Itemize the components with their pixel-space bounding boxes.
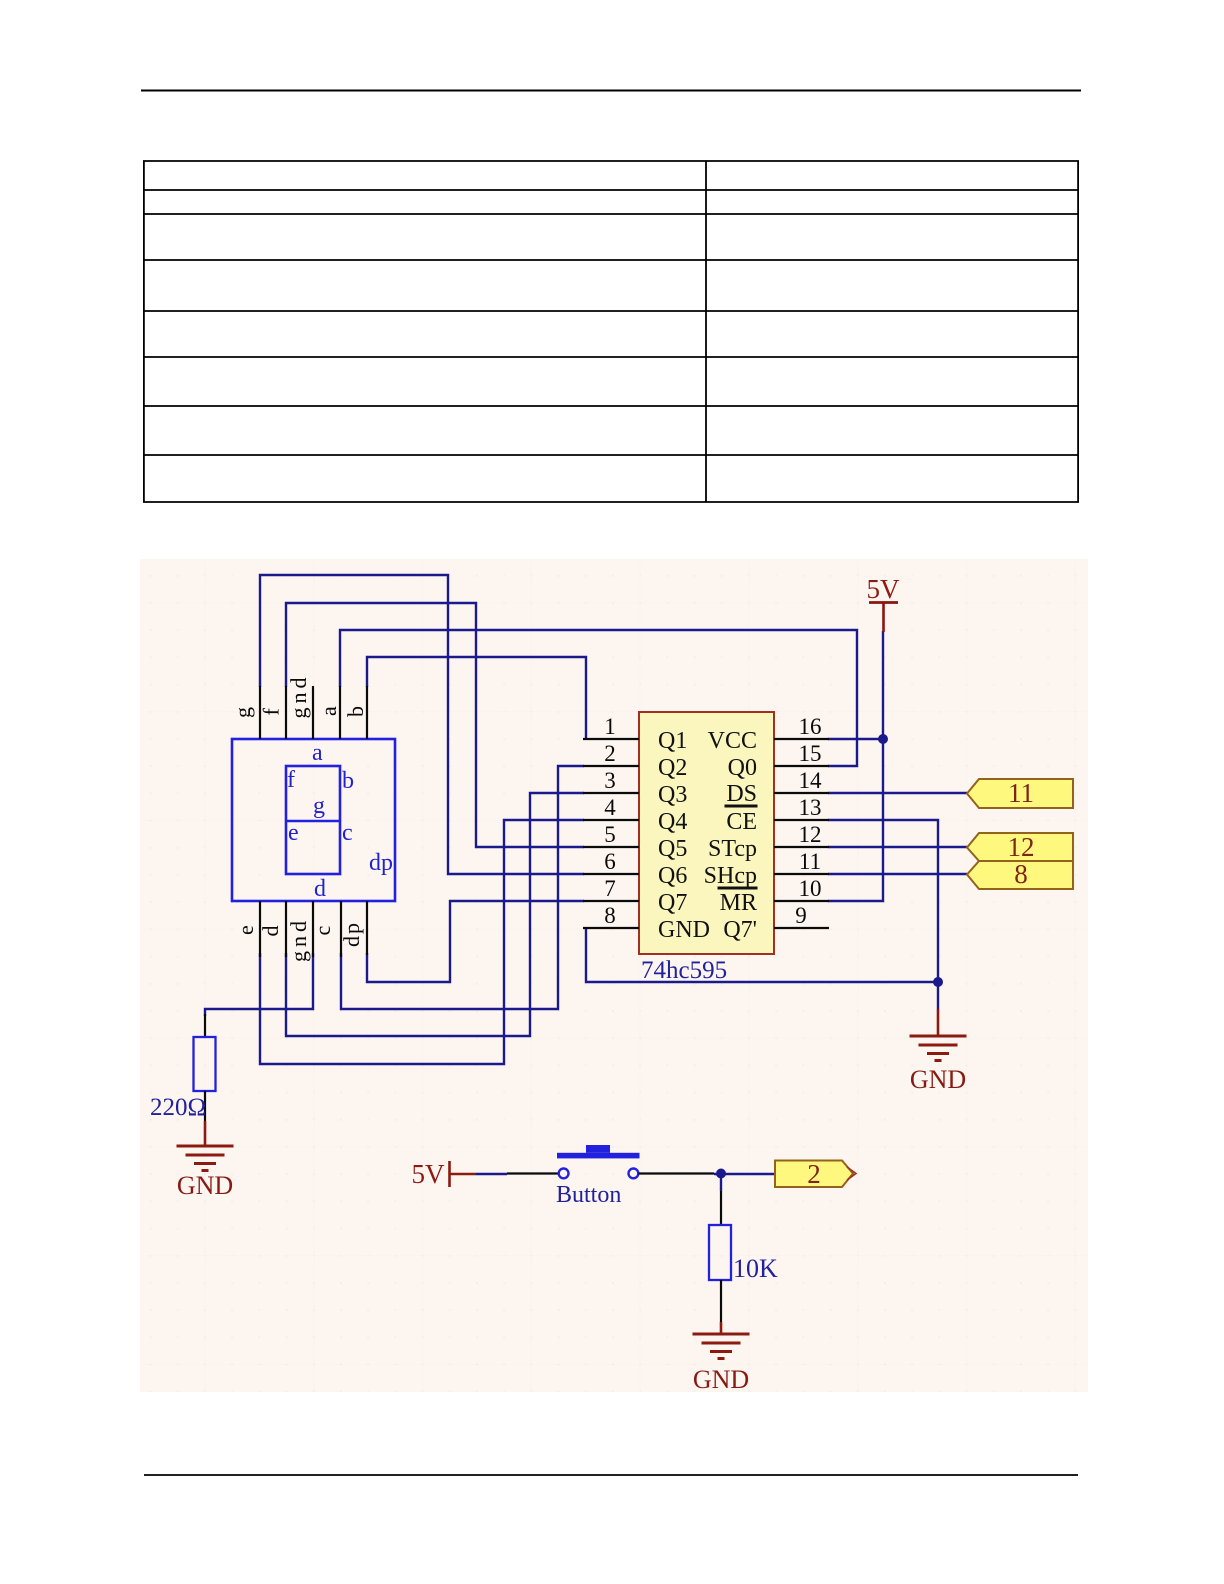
svg-text:Button: Button (556, 1182, 621, 1208)
svg-text:a: a (316, 706, 341, 716)
svg-text:Q0: Q0 (728, 755, 757, 781)
svg-text:dp: dp (369, 850, 393, 876)
table (143, 161, 1079, 502)
port 11 flag (967, 778, 1073, 808)
power port 5V (button) (412, 1159, 477, 1189)
resistor R1 220ohm body (194, 1014, 216, 1121)
wire net a: display top pin a to U1 pin 15 (Q0) (340, 630, 857, 766)
power port 5V (top) (867, 574, 901, 632)
schematic background (140, 559, 1088, 1392)
svg-text:STcp: STcp (708, 836, 757, 862)
display top pin stubs (260, 686, 367, 739)
wire net DS: U1 pin 14 to port 11 (828, 792, 967, 794)
svg-text:c: c (342, 820, 353, 846)
svg-text:VCC: VCC (708, 728, 757, 754)
wire net dp: display bottom pin dp to U1 pin 7 (Q7) (367, 901, 584, 982)
wire button to junction (639, 1172, 776, 1175)
svg-text:Q3: Q3 (658, 782, 687, 808)
button label (556, 1182, 621, 1208)
svg-text:9: 9 (795, 903, 807, 928)
svg-text:Q7: Q7 (658, 890, 687, 916)
resistor R2 value 10K (733, 1254, 778, 1283)
svg-text:GND: GND (658, 917, 710, 943)
footer rule (144, 1474, 1078, 1476)
svg-text:dp: dp (339, 921, 364, 947)
svg-text:GND: GND (910, 1065, 966, 1094)
svg-text:g: g (230, 707, 255, 718)
svg-text:4: 4 (604, 795, 616, 820)
wire net 5V: VCC rail vertical (828, 631, 883, 901)
svg-text:14: 14 (799, 768, 823, 793)
svg-text:f: f (287, 767, 295, 793)
svg-text:3: 3 (604, 768, 616, 793)
wire net e: display bottom pin e to U1 pin 4 (Q4) (260, 820, 584, 1064)
junction ground node (933, 977, 943, 987)
svg-text:5V: 5V (412, 1159, 446, 1189)
button S1 (557, 1145, 640, 1178)
wire net c: display bottom pin c to U1 pin 2 (Q2) (341, 766, 584, 1009)
svg-text:d: d (258, 926, 283, 937)
U1 right pin numbers 16-9 (795, 714, 822, 928)
svg-text:6: 6 (604, 849, 616, 874)
port 8 flag (967, 859, 1073, 889)
svg-text:11: 11 (799, 849, 821, 874)
svg-text:8: 8 (604, 903, 616, 928)
display bottom pin labels e d gnd c dp (rotated) (233, 917, 364, 962)
svg-text:f: f (259, 708, 284, 716)
schematic grid (140, 559, 1088, 1392)
svg-text:CE: CE (726, 809, 757, 835)
svg-text:11: 11 (1008, 778, 1034, 808)
svg-text:gnd: gnd (286, 917, 311, 962)
svg-text:7: 7 (604, 876, 616, 901)
svg-text:Q5: Q5 (658, 836, 687, 862)
ground symbol GND (middle, under U1) (910, 982, 967, 1094)
svg-text:12: 12 (1008, 832, 1035, 862)
resistor R2 10K body (709, 1225, 731, 1280)
wire net f: display top pin f to U1 pin 5 (Q5) (286, 603, 584, 847)
wire junction to resistor R2 (720, 1174, 722, 1225)
port 2 flag (775, 1159, 856, 1189)
svg-text:MR: MR (720, 890, 757, 916)
op 74hc595 U1 body (639, 712, 774, 954)
svg-text:5V: 5V (867, 574, 901, 604)
svg-text:b: b (342, 768, 354, 794)
svg-text:d: d (314, 876, 326, 902)
svg-text:10: 10 (799, 876, 822, 901)
svg-text:220Ω: 220Ω (150, 1094, 206, 1121)
svg-text:Q4: Q4 (658, 809, 687, 835)
svg-text:gnd: gnd (286, 674, 311, 719)
U1 DS underline / CE overline (725, 805, 758, 808)
svg-text:g: g (313, 793, 325, 819)
U1 designator 74hc595 (641, 957, 727, 984)
wire net g: display top pin g to U1 pin 6 (Q6) (260, 575, 584, 874)
svg-text:5: 5 (604, 822, 616, 847)
7-segment display segment letters (287, 740, 393, 902)
wire net d: display bottom pin d to U1 pin 3 (Q3) (286, 793, 584, 1036)
resistor R1 value 220ohm (150, 1094, 206, 1121)
wire net IC-GND: U1 pin 8 to ground junction (586, 928, 938, 982)
wire net CE: U1 pin 13 to ground junction (828, 820, 938, 982)
svg-text:Q2: Q2 (658, 755, 687, 781)
U1 left pin numbers 1-8 (604, 714, 616, 928)
svg-text:Q1: Q1 (658, 728, 687, 754)
ground symbol GND (left, under R1) (177, 1121, 234, 1200)
wire resistor R2 to ground (720, 1280, 722, 1334)
svg-text:13: 13 (799, 795, 822, 820)
display bottom pin stubs (260, 901, 367, 957)
junction VCC node (878, 734, 888, 744)
U1 left pin lines 1-8 (583, 739, 639, 928)
wire 5V to button (476, 1172, 559, 1175)
svg-text:c: c (310, 926, 335, 936)
svg-text:SHcp: SHcp (704, 863, 757, 889)
wire net b: display top pin b to U1 pin 1 (Q1) (367, 657, 586, 740)
svg-text:e: e (233, 925, 258, 935)
svg-text:16: 16 (799, 714, 822, 739)
7-segment display DS1 outer box (232, 739, 395, 901)
svg-text:8: 8 (1014, 859, 1028, 889)
svg-text:a: a (312, 740, 323, 766)
svg-text:12: 12 (799, 822, 822, 847)
7-segment display segment frame (286, 766, 340, 874)
svg-text:DS: DS (726, 781, 757, 807)
svg-text:Q6: Q6 (658, 863, 687, 889)
U1 SHcp underline / MR overline (718, 887, 758, 890)
svg-text:2: 2 (604, 741, 616, 766)
svg-text:GND: GND (177, 1171, 233, 1200)
U1 right pin lines 16-9 (774, 739, 829, 928)
svg-text:Q7': Q7' (723, 917, 757, 943)
U1 right pin labels (704, 728, 757, 943)
wire VCC pin16 to 5V (828, 738, 883, 740)
svg-text:2: 2 (807, 1159, 821, 1189)
svg-text:b: b (343, 706, 368, 717)
U1 left pin labels Q1-Q7,GND (658, 728, 710, 943)
port 12 flag (967, 832, 1073, 862)
wire net gnd: display bottom pin gnd to resistor R1 (205, 953, 313, 1016)
svg-text:15: 15 (799, 741, 822, 766)
display top pin labels g f gnd a b (rotated) (230, 674, 368, 719)
wire net STcp: U1 pin 12 to port 12 (828, 846, 967, 848)
ground symbol GND (bottom, under R2) (693, 1334, 750, 1394)
wire net SHcp: U1 pin 11 to port 8 (828, 873, 967, 875)
svg-text:GND: GND (693, 1365, 749, 1394)
svg-text:74hc595: 74hc595 (641, 957, 727, 984)
svg-text:1: 1 (604, 714, 616, 739)
junction button node (716, 1169, 726, 1179)
svg-text:e: e (288, 820, 299, 846)
header rule (141, 90, 1081, 92)
svg-text:10K: 10K (733, 1254, 778, 1283)
